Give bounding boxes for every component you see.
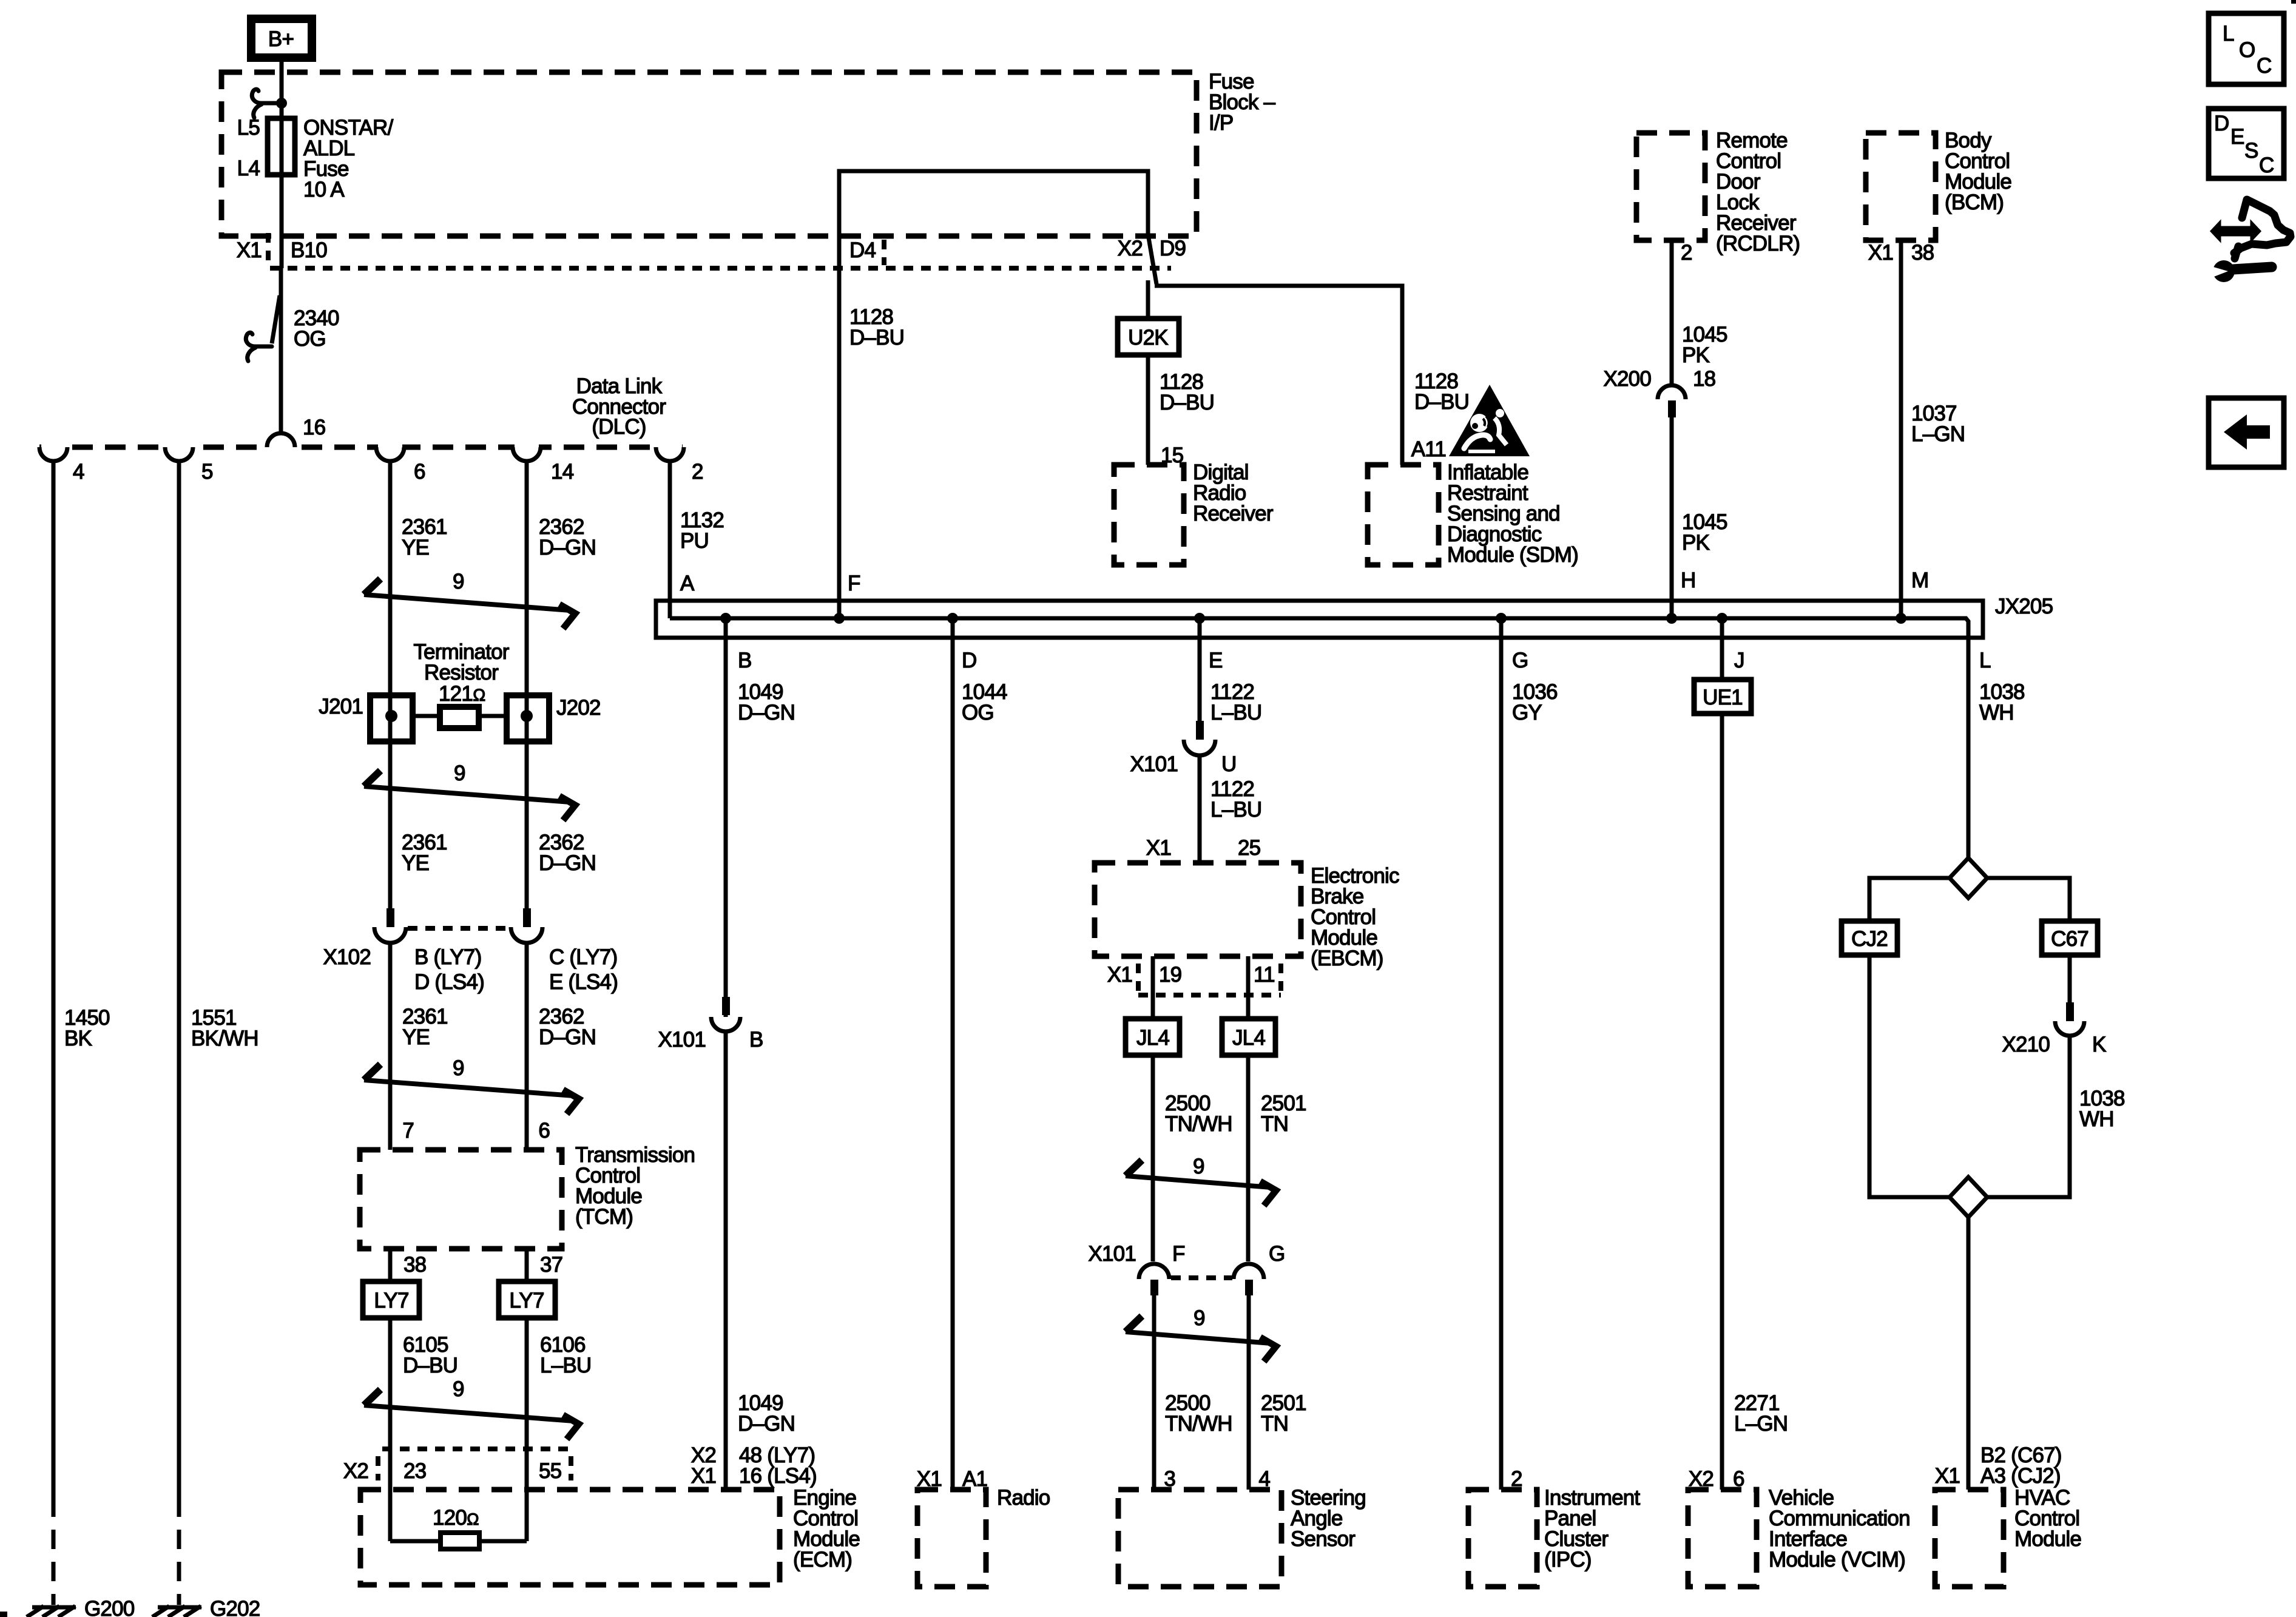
connector lead curl at fuse feed [252, 89, 278, 103]
svg-text:JX205: JX205 [1995, 595, 2053, 618]
svg-text:9: 9 [454, 761, 465, 785]
wire lower diamond to HVAC [1967, 1217, 1971, 1490]
svg-text:D–GN: D–GN [539, 536, 596, 559]
connector X101 F cup [1139, 1264, 1169, 1295]
svg-text:D (LS4): D (LS4) [414, 970, 484, 994]
label 2271 L-GN [1734, 1391, 1788, 1436]
option box LY7 left [363, 1281, 419, 1318]
splice diamond lower [1950, 1177, 1987, 1217]
Engine Control Module box [360, 1490, 780, 1585]
service tool icon [2209, 200, 2291, 282]
label 1038 WH (upper) [1979, 680, 2025, 724]
svg-text:D: D [962, 649, 976, 672]
svg-text:23: 23 [403, 1459, 426, 1483]
svg-text:K: K [2092, 1033, 2106, 1056]
node B junction [720, 613, 731, 624]
svg-text:9: 9 [453, 1377, 464, 1401]
wire CJ2 to lower diamond [1869, 955, 1950, 1197]
svg-text:D–BU: D–BU [849, 326, 904, 349]
internal fuse block wire D4 to D9 [839, 171, 1148, 618]
connector X101 B on wire 1049 [658, 997, 763, 1052]
label 2361 YE (lower) [402, 1005, 448, 1049]
wire 1038 WH (X210 to lower diamond) [1987, 1036, 2070, 1197]
svg-text:2: 2 [1681, 241, 1692, 265]
wire RCDLR 2 to X200 [1670, 240, 1674, 387]
label 1132 PU [680, 508, 724, 553]
svg-text:UE1: UE1 [1703, 686, 1743, 709]
svg-text:(IPC): (IPC) [1544, 1548, 1592, 1571]
wire EBCM 11 down [1246, 956, 1251, 1261]
wire C67 branch [1987, 878, 2070, 921]
wire D9 to U2K and radio receiver [1146, 280, 1150, 465]
HVAC Control Module box [1935, 1490, 2004, 1587]
wire 1037 L-GN (BCM to bus M) [1899, 240, 1903, 618]
label TCM [575, 1143, 695, 1229]
svg-text:121Ω: 121Ω [439, 682, 485, 706]
svg-text:G200: G200 [84, 1597, 135, 1617]
wire 1045 PK (X200 to bus H) [1670, 417, 1674, 618]
connector X101 G cup [1234, 1264, 1264, 1295]
connector X2 6 labels at VCIM [1689, 1467, 1744, 1491]
svg-text:JL4: JL4 [1232, 1026, 1265, 1050]
svg-text:TN/WH: TN/WH [1165, 1412, 1232, 1436]
svg-text:D4: D4 [849, 238, 876, 262]
node J junction [1717, 613, 1727, 624]
bus bar JX205 wire [670, 618, 1968, 858]
EBCM X1 connector row dotted [1138, 964, 1281, 995]
wire 1049 D-GN (bus B to ECM) [724, 618, 728, 1490]
svg-text:Receiver: Receiver [1193, 502, 1274, 525]
label 1045 PK (upper) [1682, 323, 1727, 367]
label EBCM [1311, 864, 1399, 970]
svg-text:(ECM): (ECM) [793, 1548, 852, 1571]
label SDM [1447, 461, 1578, 567]
svg-text:S: S [2244, 139, 2258, 163]
svg-text:M: M [1911, 569, 1928, 592]
label 1122 L-BU (upper) [1210, 680, 1261, 724]
svg-text:(DLC): (DLC) [592, 415, 646, 439]
svg-text:E: E [2230, 125, 2244, 149]
svg-text:Radio: Radio [997, 1486, 1050, 1510]
svg-text:J201: J201 [319, 695, 363, 718]
Radio box [917, 1490, 986, 1587]
svg-text:C: C [2259, 154, 2274, 177]
svg-text:TN: TN [1261, 1412, 1288, 1436]
wire 2361 YE upper (DLC 6 to X102) [388, 461, 393, 908]
label 1450 BK [64, 1006, 110, 1050]
svg-text:U: U [1221, 752, 1236, 776]
node D junction [947, 613, 958, 624]
back arrow icon box [2209, 398, 2284, 467]
label VCIM [1769, 1486, 1910, 1571]
svg-text:B: B [738, 649, 752, 672]
svg-text:4: 4 [73, 460, 84, 484]
wire 2362 D-GN lower (X102 to TCM) [525, 943, 529, 1150]
svg-text:9: 9 [1194, 1306, 1205, 1330]
label 1128 D-BU (U2K branch) [1160, 370, 1214, 414]
svg-text:X102: X102 [323, 945, 371, 969]
label 1036 GY [1512, 680, 1558, 724]
svg-text:LY7: LY7 [374, 1289, 408, 1312]
svg-text:G: G [1512, 649, 1528, 672]
option box UE1 [1694, 680, 1751, 714]
label 2501 TN (upper) [1261, 1092, 1306, 1136]
fuse block connector row dotted line [270, 266, 1171, 271]
wire B+ to fuse [280, 62, 284, 118]
svg-text:TN: TN [1261, 1112, 1288, 1136]
svg-text:(EBCM): (EBCM) [1311, 947, 1383, 970]
svg-text:D–BU: D–BU [403, 1354, 458, 1377]
svg-text:L: L [2223, 22, 2234, 46]
page corner mark top right [2291, 0, 2296, 4]
svg-text:Module (VCIM): Module (VCIM) [1769, 1548, 1905, 1571]
svg-text:19: 19 [1159, 963, 1181, 987]
node G junction [1496, 613, 1507, 624]
svg-text:C (LY7): C (LY7) [549, 945, 617, 969]
svg-text:D–GN: D–GN [539, 1025, 596, 1049]
connector X102 right pin and cup [511, 908, 542, 943]
svg-text:C67: C67 [2051, 927, 2088, 951]
connector X1 25 labels at EBCM [1146, 836, 1261, 860]
label 2340 OG [294, 306, 339, 351]
wire 2340 OG from B10 to DLC pin 16 [279, 268, 283, 434]
svg-text:X210: X210 [2002, 1033, 2050, 1056]
label ECM [793, 1486, 860, 1571]
svg-text:7: 7 [402, 1119, 414, 1143]
D4 separator dots [882, 240, 886, 265]
option box LY7 right [499, 1281, 555, 1318]
twisted pair crossing (above ECM) [364, 1377, 579, 1439]
inline splice lead on wire 2340 [272, 295, 280, 343]
svg-text:X1: X1 [1107, 963, 1132, 987]
connector X101 U [1130, 721, 1236, 776]
svg-text:PK: PK [1682, 343, 1710, 367]
svg-text:L–GN: L–GN [1911, 422, 1965, 446]
svg-text:X2: X2 [1118, 237, 1143, 260]
DLC pin 16 cup [267, 433, 295, 447]
svg-text:L: L [1979, 649, 1991, 672]
svg-text:YE: YE [402, 536, 429, 559]
svg-text:D9: D9 [1160, 237, 1186, 260]
wire fuse to B10 [280, 175, 284, 268]
svg-text:X101: X101 [1088, 1242, 1136, 1266]
wire TCM 38 down [388, 1249, 393, 1541]
svg-text:F: F [1172, 1242, 1185, 1266]
node M junction [1896, 613, 1906, 624]
label 1037 L-GN [1911, 402, 1965, 446]
svg-text:H: H [1681, 569, 1695, 592]
svg-text:X101: X101 [658, 1028, 706, 1052]
Digital Radio Receiver box [1114, 465, 1184, 565]
svg-text:38: 38 [403, 1253, 426, 1277]
svg-text:X101: X101 [1130, 752, 1178, 776]
DLC pin 2 cup [656, 447, 684, 461]
twisted pair crossing (above terminator) [364, 570, 575, 629]
twisted pair crossing (EBCM) [1126, 1155, 1276, 1206]
svg-text:GY: GY [1512, 701, 1542, 724]
label Data Link Connector (DLC) [572, 374, 666, 439]
svg-text:J202: J202 [556, 696, 601, 720]
svg-text:L–BU: L–BU [1210, 701, 1261, 724]
label 2361 YE (mid) [402, 831, 447, 875]
svg-text:PU: PU [680, 529, 709, 553]
label 1122 L-BU (lower) [1210, 777, 1261, 822]
svg-text:X1: X1 [237, 238, 262, 262]
label 2361 YE [402, 515, 447, 559]
svg-text:(TCM): (TCM) [575, 1205, 633, 1229]
wire 2500 lower [1152, 1295, 1156, 1490]
svg-text:L4: L4 [237, 157, 260, 180]
svg-text:B (LY7): B (LY7) [414, 945, 481, 969]
svg-text:U2K: U2K [1128, 326, 1168, 349]
Transmission Control Module box [360, 1150, 562, 1249]
option box JL4 right [1222, 1019, 1275, 1055]
svg-text:Sensor: Sensor [1291, 1527, 1356, 1551]
X1 separator dots [266, 233, 271, 262]
resistor 121 ohm [413, 707, 507, 728]
svg-text:9: 9 [1193, 1155, 1204, 1178]
page corner mark [0, 1612, 7, 1617]
Inflatable Restraint SDM box [1368, 465, 1439, 565]
svg-text:F: F [848, 572, 860, 595]
svg-text:L5: L5 [237, 116, 260, 140]
svg-text:B10: B10 [291, 238, 327, 262]
svg-text:6: 6 [414, 460, 425, 484]
label 1045 PK (lower) [1682, 510, 1727, 555]
wire EBCM 19 down [1151, 956, 1155, 1261]
svg-text:11: 11 [1254, 963, 1275, 987]
fuse name label [303, 116, 393, 201]
svg-text:X1: X1 [1868, 241, 1893, 265]
svg-text:X1: X1 [1146, 836, 1171, 860]
svg-text:CJ2: CJ2 [1851, 927, 1888, 951]
svg-text:X1: X1 [691, 1464, 716, 1488]
svg-text:9: 9 [453, 1056, 464, 1080]
splice J202 [507, 695, 601, 741]
svg-text:BK: BK [64, 1027, 92, 1050]
connector X210 [2002, 1002, 2106, 1056]
svg-text:B+: B+ [268, 27, 294, 51]
SIR warning triangle icon [1449, 385, 1530, 456]
connector X1 A1 labels at Radio [917, 1467, 987, 1491]
svg-text:BK/WH: BK/WH [191, 1027, 258, 1050]
wire 2362 D-GN upper (DLC 14 to X102) [525, 461, 529, 908]
pin C (LY7) E (LS4) labels [549, 945, 618, 994]
svg-text:D: D [2214, 112, 2229, 135]
label 2500 TN/WH (lower) [1165, 1391, 1232, 1436]
wire 2361 YE lower (X102 to TCM) [388, 943, 393, 1150]
wire 1132 PU (DLC 2 to bus A) [668, 461, 672, 618]
label 2362 D-GN [539, 515, 596, 559]
svg-text:X200: X200 [1603, 367, 1651, 391]
wire 2501 lower [1247, 1295, 1251, 1490]
twisted pair crossing (steering) [1126, 1306, 1276, 1362]
svg-text:J: J [1734, 649, 1744, 672]
svg-text:YE: YE [402, 851, 429, 875]
svg-text:16: 16 [303, 416, 325, 439]
ground G202 [152, 1597, 260, 1617]
svg-text:10 A: 10 A [303, 178, 345, 201]
DLC pin 5 cup [165, 447, 193, 461]
label BCM [1945, 129, 2011, 214]
X102 dotted connector line [408, 926, 513, 931]
svg-text:O: O [2239, 38, 2255, 62]
svg-text:38: 38 [1911, 241, 1934, 265]
wire bus J to VCIM [1720, 618, 1724, 1490]
label 1049 D-GN (upper) [738, 680, 795, 724]
label 1038 WH (branch) [2079, 1087, 2125, 1131]
svg-text:L–BU: L–BU [1210, 798, 1261, 822]
option box U2K [1118, 319, 1179, 355]
svg-text:L–BU: L–BU [540, 1354, 591, 1377]
svg-text:WH: WH [1979, 701, 2014, 724]
svg-text:A: A [680, 572, 695, 595]
connector X1 38 labels at BCM [1868, 241, 1934, 265]
connector X2 X1 labels at ECM [691, 1443, 817, 1488]
svg-text:WH: WH [2079, 1107, 2114, 1131]
svg-text:A11: A11 [1411, 437, 1446, 461]
svg-text:D–BU: D–BU [1414, 390, 1469, 414]
wire D9 drop with kink [1148, 234, 1156, 284]
Vehicle Communication Interface Module box [1688, 1490, 1757, 1587]
svg-text:D–BU: D–BU [1160, 391, 1214, 414]
Steering Angle Sensor box [1118, 1490, 1281, 1587]
svg-text:9: 9 [453, 570, 464, 593]
label 6105 D-BU [403, 1333, 458, 1377]
option box C67 [2042, 921, 2098, 955]
twisted pair crossing (below terminator) [364, 761, 575, 820]
svg-text:X2: X2 [343, 1459, 368, 1483]
DLC pin 4 cup [39, 447, 67, 461]
terminator resistor label [413, 640, 509, 706]
label RCDLR [1716, 129, 1800, 255]
ECM X2 connector row dotted [378, 1449, 571, 1480]
DLC pin 14 cup [513, 447, 541, 461]
svg-text:OG: OG [294, 327, 326, 351]
svg-text:JL4: JL4 [1136, 1026, 1169, 1050]
wire 1122 L-BU (bus E to X101) [1198, 618, 1202, 722]
connector X200 [1603, 367, 1715, 417]
svg-text:E: E [1209, 649, 1223, 672]
label IPC [1544, 1486, 1640, 1571]
svg-text:TN/WH: TN/WH [1165, 1112, 1232, 1136]
svg-text:E (LS4): E (LS4) [549, 970, 618, 994]
wire TCM 37 down [525, 1249, 529, 1541]
svg-text:37: 37 [540, 1253, 562, 1277]
svg-text:14: 14 [551, 460, 574, 484]
label 1044 OG [962, 680, 1007, 724]
svg-text:6: 6 [538, 1119, 550, 1143]
node H junction [1666, 613, 1677, 624]
svg-text:5: 5 [201, 460, 213, 484]
node F junction [834, 613, 845, 624]
label 1551 BK/WH [191, 1006, 258, 1050]
svg-text:18: 18 [1693, 367, 1715, 391]
svg-text:(BCM): (BCM) [1945, 191, 2004, 214]
splice J201 [319, 695, 413, 741]
svg-text:A3 (CJ2): A3 (CJ2) [1980, 1464, 2061, 1488]
svg-text:I/P: I/P [1209, 111, 1233, 135]
Instrument Panel Cluster box [1468, 1490, 1537, 1587]
Electronic Brake Control Module box [1095, 863, 1301, 956]
svg-text:25: 25 [1238, 836, 1260, 860]
svg-text:D–GN: D–GN [738, 1412, 795, 1436]
label 1049 D-GN (lower) [738, 1391, 795, 1436]
svg-text:PK: PK [1682, 531, 1710, 555]
svg-text:L–GN: L–GN [1734, 1412, 1788, 1436]
svg-text:Resistor: Resistor [424, 661, 499, 684]
twisted pair crossing (above TCM) [364, 1056, 579, 1114]
label Fuse Block - I/P [1209, 70, 1276, 135]
label Steering Angle Sensor [1291, 1486, 1366, 1551]
svg-text:Module (SDM): Module (SDM) [1447, 543, 1578, 567]
internal ECM 120 ohm resistor [390, 1506, 527, 1549]
Fuse Block - I/P dashed box [221, 72, 1197, 236]
wire 1044 OG (bus D to Radio) [951, 618, 955, 1490]
svg-text:D–GN: D–GN [539, 851, 596, 875]
node E junction [1194, 613, 1205, 624]
option box CJ2 [1842, 921, 1897, 955]
wire 1551 BK/WH (pin 5 to G202) [177, 461, 181, 1497]
svg-text:2: 2 [692, 460, 703, 484]
wire 1122 L-BU (X101 to EBCM) [1198, 755, 1202, 863]
svg-text:C: C [2257, 54, 2271, 78]
Remote Control Door Lock Receiver box [1636, 133, 1705, 240]
wire branch to SDM [1155, 286, 1402, 465]
label 2501 TN (lower) [1261, 1391, 1306, 1436]
svg-text:(RCDLR): (RCDLR) [1716, 232, 1800, 255]
node splice junction at fuse feed [276, 98, 287, 109]
svg-text:D–GN: D–GN [738, 701, 795, 724]
label 1128 D-BU (SDM branch) [1414, 370, 1469, 414]
label 2500 TN/WH (upper) [1165, 1092, 1232, 1136]
svg-text:YE: YE [402, 1025, 430, 1049]
DLC connector dashed line [39, 445, 692, 450]
option box JL4 left [1126, 1019, 1180, 1055]
svg-text:55: 55 [539, 1459, 561, 1483]
DESC icon box [2209, 109, 2284, 178]
svg-text:X1: X1 [1935, 1464, 1960, 1488]
label 1128 D-BU (D4 branch) [849, 305, 904, 349]
label HVAC [2014, 1486, 2081, 1551]
connector X102 left pin and cup [374, 908, 406, 943]
connector X1 B2 A3 labels at HVAC [1935, 1443, 2062, 1488]
DLC pin 6 cup [376, 447, 404, 461]
svg-text:OG: OG [962, 701, 994, 724]
wire CJ2 branch [1869, 878, 1950, 921]
svg-text:16 (LS4): 16 (LS4) [739, 1464, 817, 1488]
label 2362 D-GN (lower) [539, 1005, 596, 1049]
ground G200 [27, 1597, 135, 1617]
svg-text:B: B [749, 1028, 763, 1052]
LOC icon box [2209, 13, 2284, 84]
pin B (LY7) D (LS4) labels [414, 945, 484, 994]
Body Control Module box [1866, 133, 1936, 240]
svg-text:G202: G202 [210, 1597, 260, 1617]
label 2362 D-GN (mid) [539, 831, 596, 875]
X101 dotted connector line [1171, 1275, 1232, 1280]
wire C67 to X210 [2068, 955, 2072, 1004]
bus bar JX205 outer box [656, 601, 1983, 638]
B+ power feed symbol [247, 15, 316, 62]
wire 1450 BK (pin 4 to G200) [52, 461, 56, 1497]
fuse ONSTAR/ALDL 10A [268, 118, 295, 175]
wire 1036 GY (bus G to IPC) [1499, 618, 1504, 1490]
label 6106 L-BU [540, 1333, 591, 1377]
label Digital Radio Receiver [1193, 461, 1274, 525]
svg-text:Module: Module [2014, 1527, 2081, 1551]
svg-text:LY7: LY7 [509, 1289, 544, 1312]
